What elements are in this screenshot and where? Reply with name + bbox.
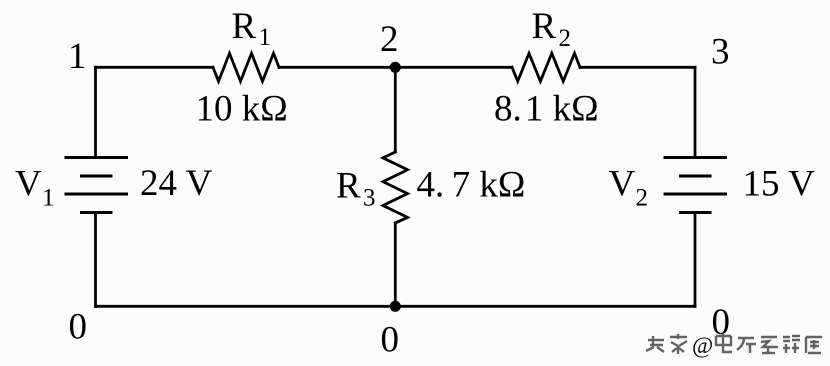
wire left vertical top (94, 67, 97, 157)
svg-text:10 kΩ: 10 kΩ (196, 89, 288, 130)
wire right vertical bottom (694, 213, 697, 307)
wire right vertical top (694, 67, 697, 157)
junction node 0 dot (390, 301, 401, 312)
junction node 2 dot (390, 62, 401, 73)
source V2 label (609, 164, 649, 212)
svg-text:8. 1 kΩ: 8. 1 kΩ (494, 89, 599, 130)
svg-text:3: 3 (711, 32, 730, 73)
resistor R2 label (532, 6, 572, 52)
svg-text:1: 1 (42, 185, 55, 212)
svg-text:V: V (15, 164, 42, 205)
battery V2 (664, 158, 728, 213)
wire bottom (96, 305, 696, 308)
svg-text:4. 7 kΩ: 4. 7 kΩ (417, 165, 526, 206)
svg-text:R: R (336, 166, 361, 207)
svg-text:24 V: 24 V (140, 163, 213, 204)
svg-text:R: R (532, 6, 557, 47)
battery V1 (65, 158, 129, 213)
source V1 label (15, 164, 55, 212)
resistor R3 label (336, 166, 376, 212)
wire middle vertical bottom (394, 223, 397, 306)
svg-text:V: V (609, 164, 636, 205)
svg-text:3: 3 (363, 185, 376, 212)
svg-text:1: 1 (259, 24, 272, 51)
wire R2 to node 3 (580, 66, 695, 69)
svg-text:2: 2 (380, 19, 399, 60)
resistor R2 (512, 53, 580, 81)
wire left vertical bottom (94, 213, 97, 307)
resistor R3 (383, 152, 408, 223)
wire node1 to R1 (96, 66, 214, 69)
wire R1 to node 2 (279, 66, 512, 69)
svg-text:@: @ (692, 333, 713, 358)
wire middle vertical top (394, 67, 397, 152)
svg-text:0: 0 (381, 320, 400, 361)
svg-text:15 V: 15 V (743, 164, 816, 205)
watermark 头条@电子资料库 (646, 334, 822, 354)
svg-text:0: 0 (69, 307, 88, 348)
svg-text:1: 1 (68, 36, 87, 77)
svg-text:2: 2 (559, 25, 572, 52)
svg-text:R: R (232, 6, 257, 47)
resistor R1 (213, 53, 279, 81)
svg-text:2: 2 (636, 185, 649, 212)
resistor R1 label (232, 6, 272, 51)
